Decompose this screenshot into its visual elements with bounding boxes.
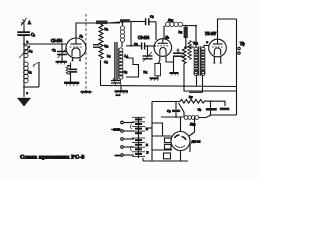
resistor R1 bar in rail <box>96 21 108 25</box>
Tr1 primary top lead <box>195 26 197 48</box>
transformer core lines <box>115 42 117 80</box>
svg-text:−120В: −120В <box>112 128 121 132</box>
svg-text:C3: C3 <box>31 32 36 38</box>
svg-text:R4: R4 <box>144 70 148 75</box>
band switch ДВ-МВ <box>171 132 190 151</box>
regeneration step wire <box>126 58 139 77</box>
tube Л2 <box>154 39 172 57</box>
phones wire right <box>236 19 238 115</box>
svg-text:УБ-107: УБ-107 <box>205 32 216 36</box>
wire L1-L2 <box>23 58 25 62</box>
svg-text:L2: L2 <box>28 70 32 75</box>
choke Dr2 <box>179 103 211 119</box>
tube2 anode lead <box>163 26 164 39</box>
phone jacks <box>238 47 240 49</box>
ground small near battery <box>116 95 126 99</box>
tube Л1 <box>66 38 86 58</box>
resistor R5 hatched <box>184 26 188 47</box>
capacitor C3 <box>17 32 30 35</box>
svg-text:R7: R7 <box>189 95 193 100</box>
svg-text:C9: C9 <box>167 109 171 114</box>
battery Bn cells <box>132 138 145 156</box>
svg-text:СБ-154: СБ-154 <box>138 36 149 40</box>
Tr1 secondary top lead to tube3 grid <box>203 46 210 48</box>
svg-text:з: з <box>27 91 29 95</box>
ground bottom left of battery <box>115 155 122 157</box>
filament rail A <box>101 86 237 87</box>
resistor R7 zigzag <box>180 100 211 104</box>
anode rail stage1 <box>96 22 120 24</box>
ground bar under transformer <box>115 86 129 95</box>
svg-text:C1: C1 <box>52 48 56 53</box>
tube3 anode lead <box>218 19 237 39</box>
variable cap under transformer <box>111 81 121 84</box>
svg-text:R2: R2 <box>105 44 109 49</box>
junction dots <box>61 22 211 118</box>
plug comb structure <box>152 123 172 159</box>
trimmer capacitor C grid <box>57 44 67 62</box>
svg-text:А: А <box>28 20 31 25</box>
vertical tap x131 <box>130 21 131 46</box>
svg-text:Схема приемника РС-3: Схема приемника РС-3 <box>20 155 85 161</box>
transformer secondary winding <box>119 48 123 79</box>
svg-text:Л1: Л1 <box>80 34 84 39</box>
resistor R2 bar <box>120 19 130 22</box>
svg-text:Б: Б <box>147 151 149 155</box>
svg-text:L1: L1 <box>29 49 33 54</box>
choke Dr1 <box>165 22 197 26</box>
battery terminals <box>121 121 134 156</box>
svg-text:а: а <box>27 40 29 44</box>
svg-text:C5: C5 <box>150 15 154 20</box>
wire to switch right <box>189 117 195 137</box>
battery tap link <box>145 127 152 129</box>
wire C3 to node a <box>23 36 25 45</box>
svg-text:Др1: Др1 <box>168 18 174 23</box>
rail A2 <box>184 87 237 92</box>
ground under R4 <box>150 78 159 81</box>
brace Bn <box>131 146 132 151</box>
cap C8b <box>220 108 230 111</box>
dashed shield line <box>85 14 87 90</box>
Tr1 bottom leads <box>197 75 203 93</box>
svg-text:C4: C4 <box>104 60 108 65</box>
ground bar under tube1 <box>64 83 79 86</box>
svg-text:C5: C5 <box>124 70 128 75</box>
wire R2 down to rail <box>100 60 102 86</box>
bypass cap right of tube2 <box>167 48 183 62</box>
cap C8a <box>206 101 217 115</box>
junction and caps C8 <box>210 100 212 102</box>
svg-text:Тф: Тф <box>240 42 245 46</box>
cathode RC network <box>66 63 77 83</box>
tube1 filament legs <box>73 58 81 61</box>
coil L2 <box>24 62 29 84</box>
shield ground <box>81 90 92 94</box>
wire L2 to ground <box>23 82 25 97</box>
coil L1 variable <box>19 44 30 58</box>
brace Ba <box>131 124 132 129</box>
switch top wiring <box>161 112 183 132</box>
capacitor C6 <box>142 43 156 50</box>
svg-text:СБ-154: СБ-154 <box>51 39 62 43</box>
svg-text:C9: C9 <box>198 108 202 113</box>
tube Л3 УБ-107 <box>209 39 227 57</box>
capacitor C9 <box>175 102 177 110</box>
trimmer cap C7 to ground <box>143 47 153 62</box>
ground bar right of tube2 <box>170 62 179 76</box>
antenna <box>21 18 27 31</box>
tube1 anode lead <box>76 23 96 38</box>
output transformer Tr1 <box>194 46 205 76</box>
svg-text:R1: R1 <box>105 27 109 32</box>
svg-text:ДВ-М: ДВ-М <box>192 140 201 144</box>
bottom link line <box>211 114 237 116</box>
coupling capacitor C5 top <box>131 18 156 25</box>
svg-text:C8: C8 <box>176 48 180 53</box>
bottom rail <box>143 158 188 161</box>
battery center line <box>138 118 140 159</box>
resistor R2 zigzag <box>99 24 103 59</box>
ground (earth) <box>18 99 31 107</box>
node a <box>23 43 25 45</box>
feedback loop wire with arrow <box>24 62 39 87</box>
junction to transformer <box>186 46 194 48</box>
svg-text:Др2: Др2 <box>190 122 196 127</box>
grid resistor R4 box <box>158 61 160 64</box>
transformer bottom leads <box>113 78 121 86</box>
ground bar under C <box>56 62 68 65</box>
grid line tube2 with C6 <box>126 45 141 47</box>
wire antenna to C3 <box>23 27 25 32</box>
svg-text:R5: R5 <box>179 30 183 35</box>
wire grid bus <box>24 43 66 45</box>
supply line B corner <box>152 101 180 103</box>
tube3 filament legs <box>214 56 220 63</box>
wire C5 to tube2 grid top <box>155 22 157 40</box>
wire rail to spiral <box>108 22 121 23</box>
svg-text:L3: L3 <box>107 54 111 59</box>
battery Ba cells <box>132 117 145 133</box>
svg-text:Б: Б <box>146 143 148 147</box>
resistor R6 zigzag <box>182 47 186 87</box>
HF transformer primary spiral <box>120 22 124 47</box>
svg-text:в: в <box>207 40 209 44</box>
tube2 filament legs <box>160 56 167 62</box>
